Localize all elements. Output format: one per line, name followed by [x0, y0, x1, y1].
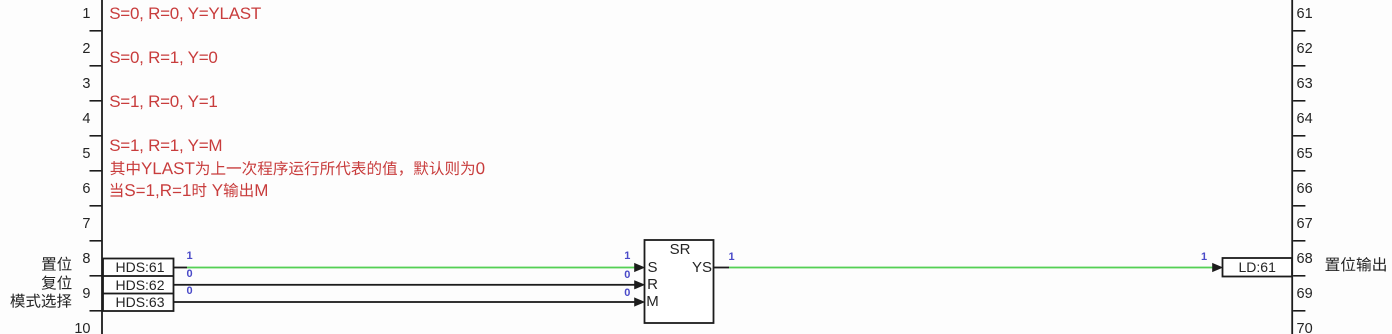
left rail tick 5 [90, 170, 103, 172]
value 1 at HDS:61 output [110, 246, 270, 266]
left rail tick 4 [90, 135, 103, 137]
value 1 at SR output YS [652, 247, 812, 267]
right rail tick 7 [1293, 240, 1305, 242]
output block LD:61 outline [1223, 258, 1293, 277]
left row number 5 [0, 144, 91, 164]
left rail tick 8 [90, 275, 103, 277]
value 1 at LD:61 input [1124, 247, 1284, 267]
left row number 4 [0, 109, 91, 129]
right row number 65 [1297, 144, 1313, 164]
right row number 67 [1297, 214, 1313, 234]
divider HDS:62/HDS:63 [103, 293, 174, 295]
input label 置位 (Set) [42, 257, 71, 271]
value 0 at SR pin M [547, 283, 707, 303]
arrowhead into SR pin R [634, 280, 645, 289]
left rail tick 3 [90, 100, 103, 102]
block title SR [600, 240, 760, 260]
wire: YS output stub [714, 267, 730, 269]
block label HDS:62 [60, 275, 220, 295]
block label HDS:63 [60, 292, 220, 312]
right row number 70 [1297, 319, 1313, 334]
left row number 9 [0, 284, 91, 304]
right rail tick 6 [1293, 205, 1305, 207]
comment line 4: S=1, R=1, Y=M [109, 136, 222, 156]
right row number 66 [1297, 179, 1313, 199]
value 0 at SR pin R [547, 265, 707, 285]
left row number 8 [0, 249, 91, 269]
left rail tick 1 [90, 30, 103, 32]
value 0 at HDS:63 output [110, 281, 270, 301]
left rail tick 6 [90, 205, 103, 207]
arrowhead into SR pin S [634, 263, 645, 272]
wire: HDS:61 output stub [174, 267, 188, 269]
left row number 2 [0, 39, 91, 59]
left row number 10 [0, 319, 91, 334]
comment line 6 (CJK): output note [111, 183, 268, 198]
pin label R [573, 275, 733, 295]
right rail tick 3 [1293, 100, 1305, 102]
wire: M net [174, 301, 635, 303]
comment line 5 (CJK): YLAST default note [111, 161, 485, 176]
right rail tick 1 [1293, 30, 1305, 32]
comment line 2: S=0, R=1, Y=0 [109, 48, 217, 68]
output label 置位输出 (Set output) [1326, 257, 1386, 272]
pin label S [573, 258, 733, 278]
wire: S net (energized, green) [187, 267, 635, 269]
right row number 68 [1297, 249, 1313, 269]
block label HDS:61 [60, 257, 220, 277]
operand blocks HDS:61/62/63 outline [103, 259, 174, 312]
arrowhead into LD:61 [1212, 263, 1223, 272]
pin label YS [622, 258, 782, 278]
input label 模式选择 (Mode select) [10, 294, 71, 308]
right row number 61 [1297, 4, 1313, 24]
left rail tick 9 [90, 310, 103, 312]
right row number 64 [1297, 109, 1313, 129]
right rail tick 9 [1293, 310, 1305, 312]
value 0 at HDS:62 output [110, 264, 270, 284]
wire: R net [174, 284, 635, 286]
right power rail [1291, 0, 1293, 334]
right rail tick 5 [1293, 170, 1305, 172]
comment line 1: S=0, R=0, Y=YLAST [109, 4, 261, 24]
left row number 6 [0, 179, 91, 199]
right rail tick 4 [1293, 135, 1305, 137]
value 1 at SR pin S [547, 246, 707, 266]
divider HDS:61/HDS:62 [103, 275, 174, 277]
right row number 63 [1297, 74, 1313, 94]
left power rail [101, 0, 103, 334]
right rail tick 8 [1293, 275, 1305, 277]
left row number 3 [0, 74, 91, 94]
pin label M [573, 292, 733, 312]
block label LD:61 [1177, 257, 1337, 277]
right rail tick 2 [1293, 65, 1305, 67]
comment line 3: S=1, R=0, Y=1 [109, 92, 217, 112]
wire: YS->LD:61 net (energized, green) [729, 267, 1213, 269]
arrowhead into SR pin M [634, 297, 645, 306]
right row number 69 [1297, 284, 1313, 304]
function block SR outline [645, 240, 714, 323]
right row number 62 [1297, 39, 1313, 59]
input label 复位 (Reset) [42, 275, 72, 289]
left rail tick 2 [90, 65, 103, 67]
left rail tick 7 [90, 240, 103, 242]
left row number 7 [0, 214, 91, 234]
left row number 1 [0, 4, 91, 24]
